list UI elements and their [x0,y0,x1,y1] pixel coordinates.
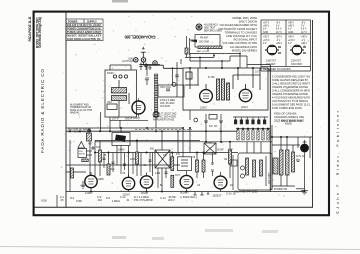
svg-text:FADA RADIO & ELECTRIC CO: FADA RADIO & ELECTRIC CO [40,69,45,153]
svg-text:TUBES 12SA7,12SK7,12SQ7: TUBES 12SA7,12SK7,12SQ7 [67,31,102,34]
svg-text:456KC: 456KC [107,73,114,75]
svg-text:AMPLIFIER STAGE: AMPLIFIER STAGE [153,119,175,122]
svg-text:-8 V: -8 V [276,23,281,25]
svg-text:6.3 V: 6.3 V [276,29,282,31]
svg-text:105-125 V. 50-60 CYC. AC-DC: 105-125 V. 50-60 CYC. AC-DC [67,23,101,27]
svg-text:1 MEG: 1 MEG [112,199,120,203]
svg-text:220K: 220K [130,159,136,161]
svg-text:+92 V: +92 V [263,37,270,39]
svg-text:GND: GND [288,32,293,34]
svg-text:CANADIAN MODELS USE: CANADIAN MODELS USE [274,115,304,119]
svg-text:FOR COMPLETE DATA: FOR COMPLETE DATA [272,106,302,110]
svg-text:TRIMMER DATA ON: TRIMMER DATA ON [70,106,91,109]
svg-text:ALIGNMENT AND: ALIGNMENT AND [70,104,89,107]
svg-text:NO SIGNAL INPUT: NO SIGNAL INPUT [234,38,258,42]
svg-text:VOL CONT: VOL CONT [269,172,271,184]
svg-text:12SQ7: 12SQ7 [141,192,149,195]
svg-text:GRID: GRID [98,179,104,181]
svg-text:OSC MOD: OSC MOD [291,64,302,66]
svg-text:+86 V: +86 V [288,26,295,28]
svg-text:VOLTAGES MEASURED WITH: VOLTAGES MEASURED WITH [219,23,257,27]
svg-text:4-VOLTAGES MEASURED WITH: 4-VOLTAGES MEASURED WITH [272,96,310,100]
svg-text:+95 V: +95 V [288,37,295,39]
svg-text:POWER CONSUMPTION 30 W.: POWER CONSUMPTION 30 W. [67,26,101,30]
svg-text:DIAL: DIAL [128,57,134,60]
svg-text:AVC: AVC [110,168,115,171]
svg-text:(+ BIAS CELL): (+ BIAS CELL) [180,195,197,199]
svg-text:LINE VOLTAGE 117 V AC: LINE VOLTAGE 117 V AC [226,34,257,38]
svg-text:12SK7GT: 12SK7GT [266,61,277,63]
svg-text:AVC BUS: AVC BUS [160,105,170,108]
svg-text:260CT, 260CW: 260CT, 260CW [239,20,258,24]
svg-text:GND: GND [263,32,268,34]
svg-text:0 V: 0 V [276,26,280,28]
svg-text:5-ALIGNMENT SEE PAGE 11-12: 5-ALIGNMENT SEE PAGE 11-12 [272,103,311,107]
svg-text:117V AC: 117V AC [296,155,305,158]
svg-text:6.3 V: 6.3 V [301,29,307,31]
svg-text:0 V: 0 V [301,26,305,28]
svg-text:MODEL 260T, 260W: MODEL 260T, 260W [232,16,257,20]
svg-text:1-CONDENSER AND 12SK7 ON: 1-CONDENSER AND 12SK7 ON [272,75,310,79]
svg-text:3-ALL CONDENSERS IN MFD: 3-ALL CONDENSERS IN MFD [272,89,310,93]
svg-text:12SK7: 12SK7 [85,192,93,195]
svg-text:1M: 1M [224,159,227,161]
svg-text:FM ANT: FM ANT [200,37,209,40]
svg-text:MODEL 260 SERIES: MODEL 260 SERIES [232,48,257,52]
svg-text:+0.8 V: +0.8 V [288,40,295,42]
svg-text:+90 V: +90 V [301,37,308,39]
svg-text:UNLESS OTHERWISE NOTED: UNLESS OTHERWISE NOTED [272,92,308,96]
svg-text:OSC: OSC [107,102,112,104]
svg-text:.002: .002 [97,198,103,202]
svg-text:47K: 47K [176,154,181,156]
svg-text:R-4: R-4 [70,196,75,200]
svg-text:.1 MF: .1 MF [227,150,233,152]
svg-text:12SQ7: 12SQ7 [133,118,141,120]
svg-text:1ST IF: 1ST IF [112,118,119,120]
svg-text:2ND IF: 2ND IF [125,118,133,120]
svg-text:#2506: #2506 [285,123,292,126]
svg-text:47K: 47K [163,155,168,157]
svg-text:TERMINALS TO CHASSIS: TERMINALS TO CHASSIS [225,30,258,34]
svg-text:SOME CHASSIS REPLACED BY: SOME CHASSIS REPLACED BY [272,78,308,82]
svg-text:FADA-MODEL 260: FADA-MODEL 260 [124,35,156,40]
svg-text:ALL READINGS ±20%: ALL READINGS ±20% [230,45,258,49]
svg-text:35Z5GT: 35Z5GT [213,194,223,197]
svg-text:+85 V: +85 V [263,26,270,28]
svg-text:47K .05: 47K .05 [209,126,218,128]
svg-text:LIGHT 6V8: LIGHT 6V8 [122,61,134,63]
svg-text:ANT: ANT [88,143,93,146]
svg-text:.05: .05 [60,198,64,202]
svg-text:1000: 1000 [41,199,47,203]
svg-text:R-6: R-6 [106,196,111,200]
svg-text:VOLUME CONTROL AT MIN: VOLUME CONTROL AT MIN [222,41,257,45]
svg-text:117 V: 117 V [301,32,307,34]
svg-text:Schematic,Voltage,Alig: Schematic,Voltage,Alig [38,17,42,48]
svg-text:POWER SW: POWER SW [274,189,288,191]
svg-text:+85 V: +85 V [276,43,283,45]
svg-text:200 V: 200 V [168,198,175,202]
svg-text:POWER: POWER [68,20,78,23]
svg-text:.01: .01 [126,198,130,202]
svg-text:OSC COIL: OSC COIL [160,87,172,89]
svg-text:+87 V: +87 V [263,23,270,25]
svg-text:-1 V: -1 V [276,40,281,42]
svg-text:SUPPLY: SUPPLY [87,20,97,23]
svg-text:+87 V: +87 V [276,37,283,39]
svg-text:0 V: 0 V [263,43,267,45]
svg-text:FADA RADIO & ELECTRIC CO.: FADA RADIO & ELECTRIC CO. [67,38,101,41]
svg-text:SW VIEWED FROM: SW VIEWED FROM [68,131,89,133]
svg-text:UNLESS OTHERWISE NOTED: UNLESS OTHERWISE NOTED [272,85,308,89]
svg-text:IF 456: IF 456 [208,77,215,79]
svg-text:117 V: 117 V [276,32,282,34]
svg-text:0 V: 0 V [288,43,292,45]
svg-text:C-14: C-14 [160,196,166,200]
svg-text:12SK7: 12SK7 [200,108,208,110]
svg-text:50L6GT: 50L6GT [180,192,190,195]
svg-text:470K 2.2 MEG: 470K 2.2 MEG [160,100,175,102]
svg-text:470K: 470K [76,199,82,203]
svg-text:12SA7: 12SA7 [241,106,249,109]
svg-text:10% .05-400V: 10% .05-400V [160,103,175,105]
svg-text:1ST: 1ST [96,147,101,149]
svg-text:VOLTAGE TAP 35Z5: VOLTAGE TAP 35Z5 [234,190,258,194]
svg-text:-8 V: -8 V [301,23,306,25]
svg-text:P.M. DYN SPKR: P.M. DYN SPKR [134,198,153,202]
svg-text:©John F. Rider, Publisher: ©John F. Rider, Publisher [335,110,340,214]
svg-text:ANT COIL: ANT COIL [197,50,208,53]
svg-text:VOLTOHMYST FROM SOCKET: VOLTOHMYST FROM SOCKET [218,27,257,31]
svg-text:0 V: 0 V [288,29,292,31]
svg-text:P.M.: P.M. [79,151,83,153]
svg-text:300 OHM: 300 OHM [199,42,209,44]
svg-text:+0.5 V: +0.5 V [263,40,270,42]
svg-text:.05 MF: .05 MF [217,150,225,152]
svg-text:FADA PAGE 11-11: FADA PAGE 11-11 [28,16,32,41]
svg-text:OUT: OUT [175,175,180,177]
svg-text:+90 V: +90 V [288,23,295,25]
svg-text:-1 V: -1 V [301,40,306,42]
svg-text:GANG: GANG [118,149,125,152]
svg-text:10.7: 10.7 [255,72,260,74]
svg-text:VOLTOHMYST TO B MINUS: VOLTOHMYST TO B MINUS [272,99,308,103]
svg-text:FADA OF CANADA: FADA OF CANADA [274,112,297,116]
svg-text:12SA7GT: 12SA7GT [291,60,302,63]
svg-text:2.2M: 2.2M [155,173,160,175]
svg-text:PAGE 11-12 OF THIS: PAGE 11-12 OF THIS [70,109,93,112]
svg-text:SPKR: SPKR [79,154,85,156]
svg-text:0 V: 0 V [263,29,267,31]
